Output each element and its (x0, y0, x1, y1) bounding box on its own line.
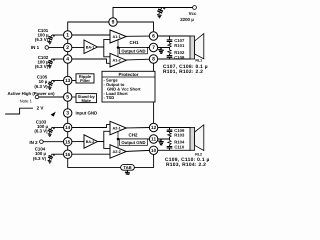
zobel stack CH2 (167, 128, 173, 151)
capacitor C108 (167, 56, 173, 58)
svg-text:TAB: TAB (123, 165, 131, 170)
svg-text:Protector: Protector (118, 72, 138, 77)
svg-text:IN 2: IN 2 (29, 140, 38, 145)
svg-text:R101: R101 (174, 43, 185, 48)
svg-text:Vcc: Vcc (189, 11, 197, 16)
ground below TAB (125, 170, 130, 176)
svg-text:2: 2 (66, 45, 69, 51)
wire TAB to pin10 (134, 155, 153, 168)
svg-text:6: 6 (152, 34, 155, 40)
svg-text:C107, C108: 0.1 µ: C107, C108: 0.1 µ (163, 64, 208, 70)
svg-text:R101, R102: 2.2: R101, R102: 2.2 (163, 69, 203, 75)
svg-text:5: 5 (66, 95, 69, 101)
pin 4 (63, 55, 71, 63)
ground at pin 7 (158, 47, 164, 53)
wire pin13 to ripple filter (72, 80, 76, 82)
op-amp A2-1 (110, 121, 126, 135)
wire pin15 to BA-2 (72, 141, 84, 143)
block stand-by mute (76, 94, 97, 103)
wire pin5 to standby block (72, 96, 76, 98)
wire C104 to pin16 (52, 153, 64, 155)
svg-text:8: 8 (152, 57, 155, 63)
svg-text:R104: R104 (174, 139, 185, 144)
svg-text:1: 1 (66, 33, 69, 39)
pin 3 (63, 109, 71, 117)
wire protector to pin12 (153, 102, 155, 123)
resistor R103 (168, 133, 171, 137)
svg-text:R103: R103 (174, 133, 185, 138)
pin 1 (63, 31, 71, 39)
capacitor C104 (33, 147, 55, 164)
wire bottom bus to TAB rail (68, 158, 121, 167)
wire C102 to pin4 (52, 58, 64, 60)
ground at pin 11 (158, 139, 164, 145)
svg-text:IN 1: IN 1 (31, 45, 40, 50)
speaker RL2 (190, 125, 204, 157)
capacitor C102 (35, 55, 55, 69)
wire pin16 to A2-2 (72, 153, 110, 155)
svg-text:A2-1: A2-1 (112, 127, 120, 131)
terminal power-on (Active High) (7, 91, 55, 104)
svg-text:(6.3 V): (6.3 V) (33, 156, 47, 161)
block protector (102, 71, 155, 102)
wire top rail pin1 to pin9 to pin6 (68, 22, 154, 32)
wire stack segments (169, 128, 171, 151)
svg-text:14: 14 (65, 125, 71, 130)
wire pin8 to speaker RL1 (158, 58, 190, 60)
pin 15 (63, 138, 71, 146)
svg-text:(6.3 V): (6.3 V) (35, 64, 49, 69)
node CH1 output GND junction (117, 46, 120, 49)
capacitor C107 (167, 40, 173, 42)
wire stack segments (169, 36, 171, 59)
capacitor C101 (35, 28, 64, 44)
wire feedback tap CH1 (117, 40, 119, 56)
pin 7 (149, 43, 157, 51)
svg-text:2200 µ: 2200 µ (180, 17, 194, 22)
pin 5 (63, 93, 71, 101)
pin 10 (149, 146, 157, 154)
svg-text:(6.3 V): (6.3 V) (34, 84, 48, 89)
svg-text:Note 1: Note 1 (20, 98, 33, 103)
svg-text:Output GND: Output GND (121, 48, 145, 53)
wire C105 to pin13 (52, 80, 64, 82)
op-amp A1-2 (110, 53, 126, 67)
wire power-on terminal to pin5 (39, 96, 64, 98)
op-amp A1-1 (110, 30, 126, 43)
wire A2-1 output to pin12 (126, 127, 149, 129)
pin 11 (149, 135, 157, 143)
resistor R104 (168, 140, 171, 145)
wire pin2 to BA-1 (72, 47, 84, 49)
capacitor C103 (34, 120, 54, 137)
svg-text:7: 7 (152, 45, 155, 51)
pin 12 (149, 123, 157, 131)
svg-text:A2-2: A2-2 (112, 150, 120, 154)
wire pin14 to A2-1 (72, 125, 110, 128)
svg-text:2 V: 2 V (37, 106, 44, 111)
wire pin12 to speaker RL2 (158, 127, 190, 129)
wire Vcc rail from pin9 (113, 8, 193, 18)
op-amp BA-2 (84, 135, 98, 148)
zobel stack CH1 (167, 36, 173, 59)
wire IN2 to pin15 (43, 141, 63, 143)
wire pin11 to zobel (118, 138, 170, 140)
wire pin1 to A1-1 (72, 34, 110, 36)
svg-text:C110: C110 (174, 145, 184, 150)
terminal IN1 (31, 45, 49, 50)
block ripple filter (76, 74, 94, 83)
pin 8 (149, 55, 157, 63)
node CH2 output GND junction (117, 138, 120, 141)
resistor R102 (168, 50, 171, 54)
wire C103 to pin14 (52, 127, 64, 129)
pin 14 (63, 123, 71, 131)
svg-text:- TSD: - TSD (104, 95, 115, 100)
wire pin8 to protector (153, 63, 155, 71)
terminal Vcc (189, 6, 197, 16)
svg-text:C108: C108 (174, 55, 185, 60)
svg-text:11: 11 (151, 137, 156, 142)
pin 6 (149, 32, 157, 40)
resistor R101 (168, 43, 171, 47)
svg-text:Filter: Filter (80, 78, 90, 83)
label Output GND box CH2 (120, 139, 148, 145)
svg-text:(6.3 V): (6.3 V) (35, 37, 49, 42)
op-amp A2-2 (110, 145, 126, 159)
wire feedback tap CH2 (117, 132, 119, 148)
capacitor C109 (167, 130, 173, 131)
pin 16 (63, 150, 71, 158)
svg-text:BA-2: BA-2 (86, 140, 95, 144)
svg-text:Input GND: Input GND (76, 111, 98, 116)
wire pin6 to speaker RL1 (158, 35, 190, 37)
wire pin4 to A1-2 (72, 59, 110, 63)
wire A2-2 output to pin10 (126, 150, 149, 151)
pin 2 (63, 43, 71, 51)
svg-text:12: 12 (151, 125, 157, 130)
wire pin7 to zobel (118, 47, 170, 49)
speaker RL1 (190, 34, 204, 63)
wire A1-2 output to pin8 (126, 58, 149, 61)
svg-text:9: 9 (112, 20, 115, 26)
svg-text:A1-2: A1-2 (112, 59, 120, 63)
capacitor C105 (34, 75, 54, 90)
block TAB (121, 165, 135, 171)
waveform 2V step (5, 106, 56, 117)
svg-text:RL1: RL1 (195, 59, 202, 63)
pin 9 (109, 18, 117, 26)
svg-text:CH2: CH2 (128, 132, 137, 137)
svg-text:4: 4 (66, 57, 69, 63)
svg-text:BA-1: BA-1 (86, 46, 95, 50)
svg-text:Output GND: Output GND (121, 140, 145, 145)
terminal IN2 (29, 140, 43, 145)
label Output GND box CH1 (120, 48, 148, 54)
svg-text:16: 16 (65, 152, 71, 157)
pin 13 (63, 76, 71, 84)
svg-text:10: 10 (151, 148, 157, 153)
svg-text:CH1: CH1 (129, 40, 138, 45)
svg-text:R103, R104: 2.2: R103, R104: 2.2 (166, 162, 206, 168)
capacitor 2200u on Vcc rail (157, 7, 194, 22)
svg-text:Active High (Power on): Active High (Power on) (7, 91, 55, 96)
svg-text:RL2: RL2 (195, 153, 202, 157)
svg-text:Mute: Mute (82, 98, 92, 103)
wire A1-1 output to pin6 (126, 35, 149, 37)
wire left pin bus (67, 35, 69, 154)
wire BA-2 split to A2-1 and A2-2 (98, 131, 111, 148)
wire pin10 to speaker RL2 (158, 149, 190, 151)
op-amp BA-1 (84, 40, 98, 54)
svg-text:3: 3 (66, 111, 69, 117)
svg-text:(6.3 V): (6.3 V) (34, 129, 48, 134)
wire BA-1 split to A1-1 and A1-2 (98, 39, 111, 56)
svg-text:A1-1: A1-1 (112, 35, 120, 39)
svg-text:15: 15 (65, 139, 71, 144)
capacitor C110 (167, 147, 173, 148)
wire IN1 to pin2 (49, 47, 64, 49)
svg-text:13: 13 (65, 78, 71, 83)
